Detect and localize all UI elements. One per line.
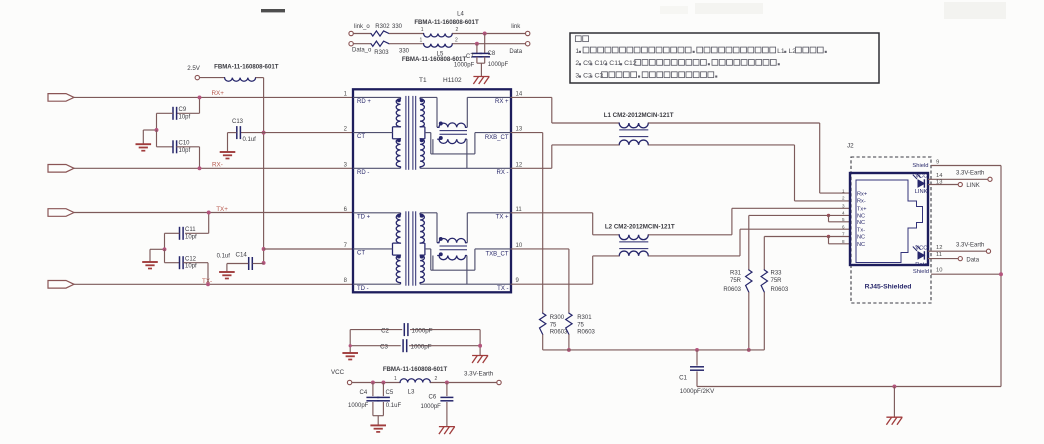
capacitor C7 1000pF — [476, 44, 478, 54]
capacitor C3 1000pF — [350, 345, 401, 347]
svg-text:5: 5 — [842, 217, 845, 222]
inductor L4 FBMA-11-160808-601T — [424, 34, 453, 38]
svg-text:0.1uf: 0.1uf — [243, 137, 257, 143]
wire bottom row to pin — [420, 167, 511, 169]
svg-text:Data: Data — [915, 262, 928, 268]
capacitor C10 10pf — [156, 130, 158, 147]
terminal link — [526, 31, 530, 35]
capacitor C8 1000pF — [484, 34, 486, 54]
svg-text:75R: 75R — [771, 278, 783, 284]
svg-text:H1102: H1102 — [443, 77, 462, 84]
wire L2 upper to RJ45 pin3 — [648, 234, 732, 236]
wire choke lower left lead — [432, 256, 434, 271]
svg-text:75: 75 — [577, 322, 584, 328]
svg-text:Shield: Shield — [913, 269, 929, 275]
node C1 on rail — [695, 348, 699, 352]
svg-text:L3: L3 — [408, 389, 415, 396]
capacitor C6 1000pF — [446, 383, 448, 397]
wire shield vertical right — [1000, 166, 1002, 387]
node link junction — [483, 32, 487, 36]
wire L2 lower to RJ45 pin6 — [648, 255, 740, 257]
node chassis gnd junction — [892, 385, 896, 389]
svg-text:R0603: R0603 — [550, 330, 568, 336]
choke core lines — [440, 130, 468, 132]
svg-text:RXB_CT: RXB_CT — [485, 135, 509, 141]
svg-text:R0603: R0603 — [771, 287, 789, 293]
wire C2C3 left — [349, 330, 351, 353]
svg-text:R0603: R0603 — [723, 287, 741, 293]
inductor L3 FBMA-11-160808-601T — [400, 379, 430, 383]
node TX- / C12 — [206, 282, 210, 286]
wire choke upper out — [466, 97, 468, 127]
svg-text:1000pF: 1000pF — [412, 327, 433, 334]
node mid C11C12 — [163, 247, 167, 251]
svg-text:J2: J2 — [847, 143, 854, 150]
node CT rail / C14 — [262, 261, 266, 265]
common-mode choke upper winding — [439, 238, 466, 242]
svg-text:C1: C1 — [679, 375, 687, 382]
svg-text:Tx+: Tx+ — [857, 207, 866, 213]
svg-text:11: 11 — [936, 252, 942, 258]
resistor R300 75 R0603 — [540, 313, 546, 334]
wire pin 1 row inside — [353, 96, 401, 98]
capacitor C11 10pf — [208, 213, 210, 234]
svg-text:LINK: LINK — [966, 183, 979, 189]
primary center tap — [393, 126, 401, 128]
svg-text:NC: NC — [857, 220, 865, 226]
terminal 3.3V-Earth output — [497, 380, 501, 384]
wire NC pins 7-8 net to R33 — [764, 236, 828, 238]
secondary winding top coil — [420, 99, 424, 127]
primary winding top coil — [396, 99, 400, 127]
capacitor C4 1000pF — [372, 383, 374, 397]
svg-text:FBMA-11-160808-601T: FBMA-11-160808-601T — [383, 366, 448, 373]
RJ45 J2 dashed boundary — [851, 157, 931, 303]
svg-text:1000pF: 1000pF — [411, 343, 432, 350]
ground below C9C10 — [136, 143, 152, 145]
wire TX+ row — [74, 212, 353, 214]
chassis ground below C7 C8 — [473, 76, 489, 78]
svg-text:TX -: TX - — [497, 286, 508, 292]
svg-text:9: 9 — [936, 160, 939, 166]
svg-text:C3: C3 — [380, 343, 388, 350]
svg-text:1: 1 — [394, 376, 397, 382]
wire C2C3 right — [479, 330, 481, 356]
notes title — [575, 36, 581, 42]
svg-text:L2 CM2-2012MCIN-121T: L2 CM2-2012MCIN-121T — [605, 224, 675, 231]
node NC78 junction — [827, 235, 830, 238]
secondary winding bottom coil — [420, 139, 424, 167]
LED Data — [913, 245, 925, 259]
svg-text:RX -: RX - — [497, 170, 509, 176]
svg-text:8: 8 — [842, 239, 845, 244]
svg-text:3.3V-Earth: 3.3V-Earth — [956, 242, 984, 248]
wire choke lower right to bottom row — [466, 139, 468, 168]
svg-text:1000pF: 1000pF — [348, 403, 369, 409]
svg-text:11: 11 — [516, 207, 523, 213]
chassis ground bottom right — [886, 416, 902, 418]
svg-text:Data: Data — [509, 49, 522, 55]
svg-text:12: 12 — [936, 245, 942, 251]
ground below C14 — [219, 271, 235, 273]
capacitor C5 0.1uF — [382, 383, 384, 397]
svg-text:C12: C12 — [185, 256, 197, 262]
wire to CT rail — [256, 77, 264, 79]
primary center tap — [393, 242, 401, 244]
svg-text:3.3V-Earth: 3.3V-Earth — [956, 171, 984, 177]
svg-text:L2: L2 — [788, 48, 796, 55]
chassis ground below C6 — [439, 426, 455, 428]
RJ45 pin 13 to LINK — [928, 184, 958, 186]
node shield pin10 junction — [999, 272, 1003, 276]
node C2C3 left — [349, 344, 352, 347]
secondary center tap — [420, 126, 425, 128]
wire after L3 — [430, 382, 497, 384]
svg-text:L1: L1 — [777, 48, 785, 55]
transformer T1 H1102 box — [353, 89, 511, 292]
wire C11-C12 mid — [164, 233, 166, 249]
node C6 junction — [445, 381, 449, 385]
wire pin10 TXB_CT down — [511, 248, 569, 250]
node NC45 junction — [827, 214, 830, 217]
svg-text:2: 2 — [575, 60, 579, 67]
svg-text:10pf: 10pf — [179, 114, 191, 120]
svg-text:1000pF: 1000pF — [454, 63, 475, 69]
choke L2 lower — [619, 251, 648, 256]
wire L1 upper to RJ45 pin1 — [648, 122, 819, 124]
svg-text:C11: C11 — [185, 227, 196, 233]
resistor R302 — [353, 33, 371, 35]
svg-text:10pf: 10pf — [185, 264, 197, 270]
resistor R303 — [353, 43, 371, 45]
svg-text:TX+: TX+ — [216, 206, 228, 213]
wire pin14 to L1 — [511, 96, 552, 98]
svg-text:CT: CT — [357, 134, 365, 140]
node C5 junction — [381, 381, 385, 385]
svg-text:2: 2 — [842, 196, 845, 201]
wire pin 6 row inside — [353, 212, 401, 214]
svg-text:1: 1 — [575, 48, 579, 55]
svg-text:RX-: RX- — [212, 162, 223, 169]
svg-text:7: 7 — [842, 232, 845, 237]
svg-text:1000pF/2KV: 1000pF/2KV — [680, 388, 715, 395]
svg-text:R301: R301 — [577, 315, 592, 321]
svg-text:NC: NC — [857, 214, 865, 220]
wire TX- row — [74, 283, 353, 285]
svg-text:L4: L4 — [457, 12, 464, 18]
wire gnd stub — [893, 387, 895, 418]
svg-text:3: 3 — [575, 73, 579, 80]
wire RX- row — [74, 167, 353, 169]
svg-text:0.1uF: 0.1uF — [386, 403, 402, 409]
svg-text:R0603: R0603 — [577, 330, 595, 336]
primary winding bottom coil — [396, 255, 400, 283]
svg-text:R31: R31 — [730, 271, 742, 277]
svg-text:L1 CM2-2012MCIN-121T: L1 CM2-2012MCIN-121T — [604, 112, 674, 119]
svg-text:RD +: RD + — [357, 99, 371, 105]
wire secondary CT route — [425, 248, 431, 250]
node RX- / C10 — [198, 166, 202, 170]
svg-text:CT: CT — [357, 251, 365, 257]
svg-text:T1: T1 — [419, 77, 427, 84]
svg-text:C10: C10 — [179, 141, 191, 147]
svg-text:1000pF: 1000pF — [488, 62, 509, 68]
wire pin 8 row inside — [353, 283, 401, 285]
svg-text:RD -: RD - — [357, 170, 369, 176]
ground below C13 — [220, 151, 236, 153]
svg-text:75: 75 — [550, 322, 557, 328]
svg-text:1: 1 — [842, 188, 845, 193]
wire choke lower right to bottom row — [466, 256, 468, 285]
capacitor C12 10pf — [164, 249, 166, 262]
secondary winding top coil — [420, 214, 424, 243]
wire CT rail vertical — [263, 78, 265, 263]
svg-text:1000pF: 1000pF — [421, 404, 442, 410]
terminal VCC — [347, 380, 351, 384]
svg-text:R300: R300 — [550, 315, 565, 321]
svg-text:C7: C7 — [466, 54, 474, 60]
svg-text:LINK: LINK — [915, 189, 928, 195]
svg-text:14: 14 — [936, 173, 943, 179]
capacitor C14 0.1uf — [248, 257, 250, 270]
transformer core lines — [405, 211, 407, 285]
svg-text:Data_o: Data_o — [352, 48, 372, 54]
svg-text:FBMA-11-160808-601T: FBMA-11-160808-601T — [214, 64, 279, 71]
wire — [389, 43, 424, 45]
svg-text:Data: Data — [966, 257, 979, 263]
wire Data row — [452, 43, 525, 45]
LED LINK — [913, 173, 925, 187]
connector arrow 3 — [48, 209, 74, 217]
svg-text:NC: NC — [857, 242, 865, 248]
svg-text:TX +: TX + — [496, 214, 509, 220]
svg-text:RX +: RX + — [495, 99, 509, 105]
choke L1 CM2-2012MCIN-121T upper — [619, 123, 648, 128]
svg-text:R302: R302 — [375, 24, 390, 30]
svg-text:Rx-: Rx- — [857, 199, 866, 205]
wire pin2 CT row — [241, 132, 353, 134]
svg-text:C9: C9 — [179, 107, 187, 113]
choke L2 core lines — [619, 241, 648, 243]
svg-text:1: 1 — [421, 27, 424, 33]
ground below C11C12 — [142, 261, 158, 263]
wire pin 3 row inside — [353, 167, 401, 169]
wire RX+ row — [74, 96, 353, 98]
wire secondary top to choke — [420, 212, 437, 214]
svg-text:3: 3 — [842, 204, 845, 209]
svg-text:C2: C2 — [381, 327, 389, 334]
capacitor C13 0.1uf — [236, 126, 238, 139]
svg-text:10pf: 10pf — [185, 234, 197, 240]
common-mode choke lower winding — [439, 256, 466, 260]
wire C9-C10 mid — [156, 113, 158, 130]
choke L1 lower — [619, 140, 648, 145]
secondary winding bottom coil — [420, 255, 424, 283]
ground C2C3 left — [342, 352, 358, 354]
svg-text:10: 10 — [516, 243, 523, 249]
wire L1 lower to RJ45 pin2 — [648, 144, 794, 146]
terminal Data — [526, 42, 530, 46]
wire choke upper out — [466, 213, 468, 243]
svg-text:2: 2 — [455, 38, 458, 44]
wire pin12 to L1 lower — [511, 167, 552, 169]
capacitor C1 1000pF/2KV — [696, 350, 698, 366]
svg-text:link_o: link_o — [354, 24, 370, 30]
RJ45 pin 11 to Data — [928, 258, 958, 260]
wire choke lower left lead — [432, 139, 434, 154]
svg-text:R33: R33 — [771, 271, 783, 277]
wire pin11 to L2 — [511, 212, 593, 214]
svg-text:0.1uf: 0.1uf — [217, 254, 231, 260]
svg-text:link: link — [511, 24, 521, 30]
svg-text:14: 14 — [516, 91, 523, 97]
svg-text:Tx-: Tx- — [857, 227, 865, 233]
secondary center tap — [420, 242, 425, 244]
capacitor C9 10pf — [199, 97, 201, 113]
wire pin9 to L2 lower — [511, 283, 593, 285]
choke L1 core lines — [619, 129, 648, 131]
svg-text:C8: C8 — [488, 51, 496, 57]
wire secondary CT route — [425, 132, 431, 134]
inductor L5 FBMA-11-160808-601T — [424, 44, 453, 48]
primary winding top coil — [396, 214, 400, 243]
node R31 on rail — [747, 348, 751, 352]
common-mode choke lower winding — [439, 139, 466, 143]
wire cap commons — [477, 62, 485, 64]
wire chassis rail — [697, 386, 1001, 388]
svg-text:2: 2 — [456, 27, 459, 33]
svg-text:3.3V-Earth: 3.3V-Earth — [464, 371, 494, 378]
svg-text:FBMA-11-160808-601T: FBMA-11-160808-601T — [414, 19, 479, 26]
chassis ground C2C3 right (3.3V-Earth) — [472, 355, 488, 357]
svg-text:2.5V: 2.5V — [187, 65, 201, 72]
svg-text:Shield: Shield — [912, 163, 928, 169]
inductor FBMA-11-160808-601T (2.5V feed) — [200, 77, 225, 79]
node RX+ / C9 — [198, 95, 202, 99]
terminal Data_o — [349, 42, 353, 46]
RJ45 connector body box — [850, 173, 928, 265]
choke core lines — [440, 245, 468, 247]
capacitor C2 1000pF — [350, 329, 402, 331]
svg-text:C11: C11 — [609, 60, 621, 67]
connector arrow 1 — [48, 94, 74, 102]
svg-text:TD +: TD + — [357, 214, 371, 220]
wire secondary top to choke — [420, 96, 437, 98]
svg-text:TXB_CT: TXB_CT — [485, 251, 508, 257]
node TX+ / C11 — [207, 211, 211, 215]
terminal 2.5V — [195, 75, 199, 79]
node CT rail / pin7 row — [262, 247, 266, 251]
wire C4C5 common — [373, 415, 384, 417]
svg-text:C14: C14 — [236, 252, 248, 259]
notes box — [570, 33, 879, 83]
resistor R31 75R R0603 — [746, 270, 752, 292]
node C4 junction — [371, 381, 375, 385]
svg-text:C13: C13 — [232, 119, 244, 125]
wire link row — [452, 33, 525, 35]
svg-text:2: 2 — [435, 376, 438, 382]
svg-text:Rx+: Rx+ — [857, 191, 867, 197]
wire pin13 RXB_CT down — [511, 132, 543, 134]
svg-text:RJ45-Shielded: RJ45-Shielded — [865, 284, 912, 291]
node CT rail / pin2 row — [262, 131, 266, 135]
svg-text:12: 12 — [516, 162, 523, 168]
node C2C3 right — [478, 344, 482, 348]
RJ45 jack outline — [856, 180, 923, 263]
wire — [389, 33, 424, 35]
wire termination rail — [543, 349, 765, 351]
svg-text:6: 6 — [842, 224, 845, 229]
choke L2 CM2-2012MCIN-121T upper — [619, 235, 648, 240]
ground below C4C5 — [370, 424, 386, 426]
svg-text:RX+: RX+ — [212, 90, 225, 97]
svg-text:330: 330 — [392, 24, 403, 30]
svg-text:R303: R303 — [374, 50, 389, 56]
connector arrow 4 — [48, 281, 74, 289]
node R301 on rail — [567, 348, 571, 352]
svg-text:330: 330 — [399, 49, 410, 55]
svg-text:C6: C6 — [429, 395, 437, 401]
svg-text:NC: NC — [857, 235, 865, 241]
svg-text:C4: C4 — [360, 390, 368, 396]
connector arrow 2 — [48, 165, 74, 173]
wire bottom row to pin — [420, 283, 511, 285]
svg-text:10: 10 — [936, 268, 942, 274]
transformer core lines — [405, 96, 407, 170]
svg-text:13: 13 — [516, 127, 523, 133]
svg-text:TD -: TD - — [357, 286, 369, 292]
node mid C9C10 — [155, 128, 159, 132]
primary winding bottom coil — [396, 139, 400, 167]
svg-text:75R: 75R — [730, 278, 742, 284]
terminal link_o — [349, 31, 353, 35]
svg-text:1: 1 — [420, 38, 423, 44]
svg-text:13: 13 — [936, 180, 942, 186]
svg-text:VCC: VCC — [331, 369, 345, 376]
svg-text:4: 4 — [842, 211, 845, 216]
node Data junction — [475, 42, 479, 46]
svg-text:C5: C5 — [386, 390, 394, 396]
resistor R301 75 R0603 — [566, 313, 572, 334]
wire pin7 CT row — [264, 248, 353, 250]
common-mode choke upper winding — [439, 123, 466, 127]
wire NC pins 4-5 net to R31 — [749, 214, 829, 216]
wire VCC row — [352, 382, 400, 384]
resistor R33 75R R0603 — [761, 270, 767, 292]
svg-text:10pf: 10pf — [179, 148, 191, 154]
